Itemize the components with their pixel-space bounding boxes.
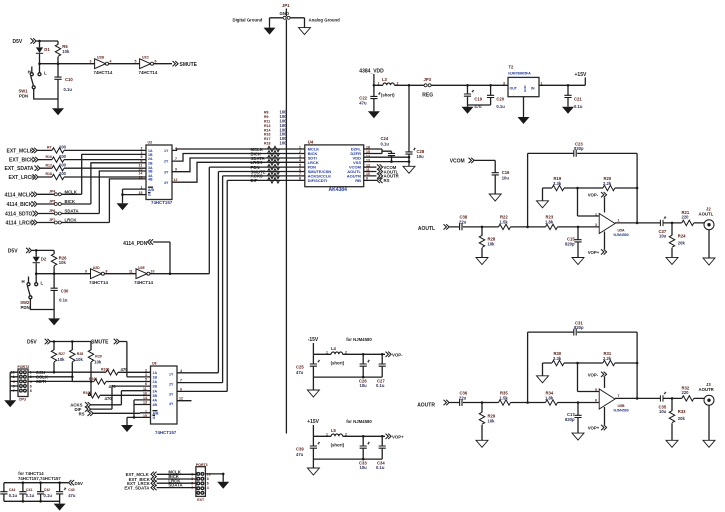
svg-text:D5V: D5V [75,481,83,486]
svg-text:MCLK: MCLK [65,189,78,194]
svg-text:U2D: U2D [93,266,100,270]
svg-text:22u: 22u [459,395,467,400]
svg-text:EXT_LRCK: EXT_LRCK [9,175,36,181]
svg-text:4B: 4B [148,178,153,182]
svg-text:REG: REG [422,93,433,99]
svg-text:R28: R28 [77,352,83,356]
svg-text:820p: 820p [565,241,575,246]
svg-text:VOP+: VOP+ [588,250,600,255]
svg-text:820p: 820p [574,325,584,330]
svg-text:74HCT14: 74HCT14 [94,70,113,75]
svg-text:220: 220 [682,215,690,220]
svg-text:4A: 4A [153,399,158,403]
svg-text:7: 7 [191,486,193,490]
svg-text:AOUTR: AOUTR [417,402,435,408]
svg-text:PORT3: PORT3 [196,463,208,467]
svg-text:3Y: 3Y [169,393,174,397]
svg-text:2: 2 [397,81,399,85]
svg-text:C44: C44 [9,488,15,492]
svg-text:R102: R102 [83,391,91,395]
svg-text:JP7: JP7 [49,218,55,222]
svg-text:R33: R33 [678,409,686,414]
svg-text:3A: 3A [153,389,158,393]
svg-text:C43: C43 [68,488,74,492]
svg-text:EXT_MCLK: EXT_MCLK [7,148,34,154]
svg-text:5: 5 [191,481,193,485]
svg-text:1.8k: 1.8k [545,220,554,225]
svg-text:6: 6 [207,481,209,485]
svg-text:IN: IN [531,87,535,91]
svg-text:6: 6 [141,159,143,163]
svg-text:PORT2: PORT2 [18,365,30,369]
svg-text:G: G [153,416,156,420]
svg-text:22u: 22u [459,220,467,225]
svg-text:13: 13 [139,175,143,179]
svg-text:0.1u: 0.1u [376,383,385,388]
svg-text:15: 15 [143,414,147,418]
svg-text:0.1u: 0.1u [381,141,390,146]
svg-text:4: 4 [110,60,112,64]
svg-text:R12: R12 [46,163,52,167]
svg-text:for NJM4580: for NJM4580 [346,337,372,342]
svg-text:Analog Ground: Analog Ground [309,18,341,23]
svg-text:VOP+: VOP+ [392,435,404,440]
svg-text:74HCT14: 74HCT14 [89,280,108,285]
svg-text:RB: RB [355,178,361,183]
svg-text:J2: J2 [706,206,711,211]
svg-text:R13: R13 [264,124,270,128]
svg-text:GND: GND [523,85,527,93]
svg-text:VOP+: VOP+ [588,426,600,431]
svg-text:2B: 2B [148,161,153,165]
svg-text:4Y: 4Y [164,181,169,185]
svg-text:L3: L3 [382,77,388,82]
svg-text:1: 1 [618,219,620,223]
svg-text:L: L [44,70,47,75]
svg-text:U4: U4 [308,140,314,145]
svg-text:47u: 47u [359,101,367,106]
svg-text:2: 2 [145,368,147,372]
svg-text:1: 1 [595,212,597,216]
svg-text:10u: 10u [502,175,510,180]
svg-text:74HCT157: 74HCT157 [155,430,177,435]
svg-text:10u: 10u [659,234,667,239]
svg-text:2Y: 2Y [169,383,174,387]
svg-text:H: H [22,279,25,284]
svg-text:DIF/SCDTI: DIF/SCDTI [308,178,328,183]
svg-text:SMUTE: SMUTE [180,62,198,68]
svg-text:L: L [41,281,44,286]
svg-text:GND: GND [280,11,290,16]
svg-text:6: 6 [299,168,301,172]
svg-text:DIF: DIF [251,178,258,183]
svg-text:JP6: JP6 [49,209,55,213]
svg-text:74HCT157: 74HCT157 [151,200,173,205]
svg-text:13: 13 [143,401,147,405]
svg-text:1: 1 [326,350,328,354]
svg-text:4114_SDTO: 4114_SDTO [5,212,33,218]
svg-text:0.1u: 0.1u [26,493,35,498]
svg-text:10k: 10k [488,419,496,424]
svg-text:3: 3 [503,81,505,85]
svg-text:R8: R8 [264,111,269,115]
svg-text:1A: 1A [153,371,158,375]
svg-text:7: 7 [175,157,177,161]
svg-text:JP5: JP5 [49,199,55,203]
svg-text:(short): (short) [381,93,395,98]
svg-text:470: 470 [105,396,113,401]
svg-text:0.1u: 0.1u [496,104,505,109]
svg-text:3B: 3B [153,394,158,398]
svg-text:5: 5 [595,388,597,392]
svg-text:2: 2 [345,432,347,436]
svg-text:+15V: +15V [575,72,587,78]
svg-text:D2: D2 [41,256,47,261]
svg-text:U3: U3 [148,141,153,145]
svg-text:D5V: D5V [13,39,23,45]
svg-text:1: 1 [378,81,380,85]
svg-text:100: 100 [280,141,288,146]
svg-text:10k: 10k [488,242,496,247]
svg-text:G: G [148,193,151,197]
svg-text:4: 4 [299,159,301,163]
svg-text:820p: 820p [565,417,575,422]
svg-text:VCOM: VCOM [450,159,465,165]
svg-text:T2: T2 [509,65,515,70]
svg-text:74HCT157,74HCT157: 74HCT157,74HCT157 [18,476,61,481]
svg-text:4114_MCLK: 4114_MCLK [5,192,33,198]
svg-text:4B: 4B [153,403,158,407]
svg-text:6: 6 [30,384,32,388]
svg-text:0.1u: 0.1u [59,298,68,303]
svg-text:2.2k: 2.2k [603,356,612,361]
svg-text:0.1u: 0.1u [9,493,18,498]
svg-text:JP1: JP1 [282,3,290,8]
svg-text:AK4384: AK4384 [329,187,348,193]
svg-text:+15V: +15V [307,419,319,425]
svg-text:4: 4 [180,369,182,373]
svg-text:2A: 2A [153,380,158,384]
svg-text:3: 3 [145,373,147,377]
svg-text:0.1u: 0.1u [44,493,53,498]
svg-text:10k: 10k [58,357,66,362]
svg-text:NJM4580: NJM4580 [614,408,629,412]
svg-text:5: 5 [145,378,147,382]
svg-text:7: 7 [618,394,620,398]
svg-text:OUT: OUT [510,87,518,91]
svg-text:VOP-: VOP- [392,353,403,358]
svg-text:D1: D1 [44,47,50,52]
svg-text:C42: C42 [44,488,50,492]
svg-text:3: 3 [595,223,597,227]
svg-text:R29: R29 [95,355,101,359]
svg-text:R27: R27 [59,352,65,356]
svg-text:10k: 10k [94,360,102,365]
svg-text:R9: R9 [264,115,269,119]
svg-text:0.1u: 0.1u [64,87,73,92]
svg-text:9: 9 [85,270,87,274]
svg-text:JP3: JP3 [424,77,432,82]
svg-text:4384_VDD: 4384_VDD [359,69,384,75]
svg-text:3.3k: 3.3k [553,356,562,361]
svg-text:2: 2 [299,150,301,154]
svg-text:C10: C10 [65,77,73,82]
svg-text:1: 1 [541,81,543,85]
svg-text:47u: 47u [68,493,76,498]
svg-text:10k: 10k [59,260,67,265]
svg-text:(short): (short) [331,361,345,366]
svg-text:10u: 10u [417,154,425,159]
svg-text:820p: 820p [574,146,584,151]
svg-text:C16: C16 [502,170,510,175]
svg-text:8: 8 [30,389,32,393]
svg-text:1: 1 [299,145,301,149]
svg-text:10u: 10u [360,465,368,470]
svg-text:RS: RS [384,178,390,183]
svg-text:NJM4580: NJM4580 [614,233,629,237]
svg-text:-15V: -15V [308,337,319,343]
svg-text:12: 12 [174,178,178,182]
svg-text:1: 1 [191,473,193,477]
svg-text:1: 1 [326,432,328,436]
svg-text:U2E: U2E [138,266,145,270]
svg-text:SDATA: SDATA [168,483,182,488]
svg-text:LRCK: LRCK [65,218,78,223]
svg-text:8: 8 [106,270,108,274]
svg-text:7: 7 [180,379,182,383]
svg-text:0.1u: 0.1u [376,465,385,470]
svg-text:C19: C19 [474,97,482,102]
svg-text:10k: 10k [76,357,84,362]
svg-text:6: 6 [155,60,157,64]
svg-text:11: 11 [143,387,147,391]
svg-text:20k: 20k [678,416,686,421]
svg-text:8: 8 [299,177,301,181]
svg-text:(short): (short) [331,443,345,448]
svg-text:1.8k: 1.8k [545,395,554,400]
svg-text:VOP-: VOP- [588,193,599,198]
svg-text:20k: 20k [678,241,686,246]
svg-text:R10: R10 [46,155,52,159]
svg-text:2Y: 2Y [164,160,169,164]
svg-text:1.5k: 1.5k [500,220,509,225]
svg-text:10k: 10k [62,49,70,54]
svg-text:5: 5 [135,60,137,64]
svg-text:6: 6 [595,399,597,403]
svg-text:470: 470 [121,367,129,372]
svg-text:100: 100 [59,162,67,167]
svg-text:C41: C41 [26,488,32,492]
svg-text:47u: 47u [296,370,304,375]
svg-text:NJM78M05FA: NJM78M05FA [508,72,531,76]
svg-text:4: 4 [175,146,177,150]
svg-text:AOUTR: AOUTR [699,387,715,392]
svg-text:R11: R11 [264,120,270,124]
svg-text:EXT_SDATA: EXT_SDATA [124,486,149,491]
svg-text:1B: 1B [153,376,158,380]
svg-text:3Y: 3Y [164,170,169,174]
svg-text:2B: 2B [153,385,158,389]
svg-text:SMUTE: SMUTE [91,340,109,346]
svg-text:R24: R24 [678,234,686,239]
svg-text:3.3k: 3.3k [553,181,562,186]
svg-text:U8: U8 [152,362,157,366]
svg-text:CPU: CPU [19,398,27,402]
svg-text:47u: 47u [474,104,482,109]
svg-text:4114_BICK: 4114_BICK [7,202,33,208]
svg-text:0.1u: 0.1u [574,104,583,109]
svg-text:10: 10 [143,391,147,395]
svg-text:H: H [28,70,31,75]
svg-text:U2B: U2B [97,56,104,60]
svg-text:J3: J3 [706,382,711,387]
svg-text:1: 1 [145,409,147,413]
svg-text:PDN: PDN [19,94,28,99]
svg-text:2: 2 [345,350,347,354]
svg-text:10u: 10u [360,383,368,388]
svg-text:L5: L5 [331,428,337,433]
svg-text:R7: R7 [47,146,52,150]
svg-text:4Y: 4Y [169,402,174,406]
svg-text:RS: RS [79,411,85,416]
svg-text:BICK: BICK [65,199,76,204]
svg-text:6: 6 [145,382,147,386]
svg-text:VOP-: VOP- [588,372,599,377]
svg-text:100: 100 [59,171,67,176]
svg-text:R17: R17 [264,137,270,141]
svg-text:10: 10 [151,270,155,274]
svg-text:11: 11 [129,270,133,274]
svg-text:R18: R18 [264,142,270,146]
svg-text:JP4: JP4 [49,190,55,194]
svg-text:Digital Ground: Digital Ground [233,18,263,23]
svg-text:for 74HCT14: for 74HCT14 [18,471,44,476]
svg-text:74HCT14: 74HCT14 [134,280,153,285]
svg-text:D5V: D5V [27,340,37,346]
svg-text:7: 7 [299,172,301,176]
svg-text:4114_PDN: 4114_PDN [123,241,148,247]
svg-text:9: 9 [180,387,182,391]
svg-text:C20: C20 [496,97,504,102]
svg-text:100: 100 [59,145,67,150]
svg-text:A/B: A/B [148,188,155,192]
svg-text:100: 100 [59,154,67,159]
svg-text:4114_LRCK: 4114_LRCK [6,221,34,227]
svg-text:C21: C21 [574,97,582,102]
svg-text:9: 9 [175,168,177,172]
svg-text:1Y: 1Y [169,373,174,377]
svg-text:R18: R18 [46,172,52,176]
svg-text:EXT_SDATA: EXT_SDATA [5,166,34,172]
svg-text:EXT_BICK: EXT_BICK [9,158,34,164]
svg-text:D5V: D5V [8,248,18,254]
svg-text:EXT: EXT [197,498,205,502]
svg-text:SDATA: SDATA [65,209,79,214]
svg-text:4: 4 [207,486,209,490]
svg-text:L4: L4 [331,346,337,351]
svg-text:AOUTL: AOUTL [699,212,714,217]
svg-text:R14: R14 [264,128,270,132]
svg-text:220: 220 [682,390,690,395]
svg-text:14: 14 [143,396,147,400]
svg-text:C30: C30 [61,288,69,293]
svg-text:1.5k: 1.5k [500,395,509,400]
svg-text:1Y: 1Y [164,149,169,153]
svg-text:74HCT14: 74HCT14 [139,70,158,75]
svg-text:12: 12 [179,397,183,401]
svg-text:PDN: PDN [21,305,30,310]
svg-text:R100: R100 [101,368,109,372]
svg-text:2.2k: 2.2k [603,181,612,186]
svg-text:R16: R16 [264,133,270,137]
svg-text:U2C: U2C [142,56,149,60]
svg-text:10u: 10u [659,409,667,414]
svg-text:for NJM4580: for NJM4580 [346,419,372,424]
svg-text:47u: 47u [296,452,304,457]
svg-text:AOUTL: AOUTL [418,226,435,232]
svg-text:3: 3 [90,60,92,64]
svg-text:5: 5 [299,163,301,167]
